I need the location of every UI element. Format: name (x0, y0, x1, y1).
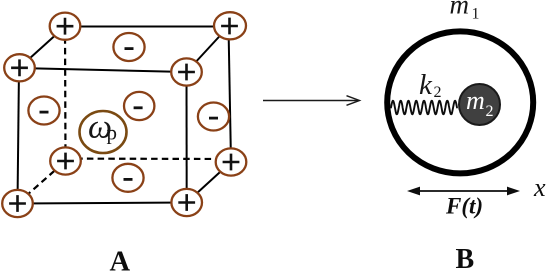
inner mass m2 (459, 84, 500, 125)
wire: cube right bottom diagonal (187, 162, 231, 203)
wire: cube front right vertical edge (186, 72, 188, 203)
svg-text:B: B (456, 244, 475, 275)
ion + front bottom right (171, 189, 202, 216)
wire: cube front top edge (19, 68, 187, 72)
electron - center (124, 92, 154, 120)
svg-text:p: p (107, 121, 118, 145)
wire: cube front bottom edge (18, 203, 187, 204)
plasma frequency circle omega_p (80, 109, 127, 153)
ion + back top right (214, 12, 246, 39)
svg-text:k: k (419, 69, 433, 101)
svg-text:A: A (110, 247, 131, 276)
ion + front bottom left (2, 190, 33, 217)
wire: cube hidden back left vertical edge (dashed) (64, 27, 67, 162)
svg-text:m: m (466, 86, 485, 115)
svg-text:1: 1 (472, 6, 480, 23)
electron - right face (198, 103, 229, 131)
ion + back top left (50, 13, 81, 40)
wire: cube top back edge (65, 26, 229, 28)
label m2 (466, 86, 494, 120)
wire: cube left top diagonal (19, 27, 65, 69)
ion + back bottom left (hidden corner) (50, 147, 81, 174)
svg-text:2: 2 (434, 84, 442, 101)
label k2 (419, 69, 442, 101)
electron - bottom face (112, 164, 143, 192)
wire: cube right top diagonal (187, 27, 229, 73)
wire: cube back right vertical edge (229, 27, 232, 163)
electron - left face (28, 97, 59, 125)
wire: cube front left vertical edge (18, 68, 20, 204)
wire: cube hidden back bottom edge (dashed) (66, 158, 232, 161)
svg-text:F(t): F(t) (445, 194, 483, 219)
wire: cube hidden bottom left diagonal (dashed) (18, 161, 66, 204)
force double arrow F(t) (407, 187, 520, 196)
svg-text:m: m (450, 0, 470, 20)
ion + front top right (171, 58, 202, 85)
spring k2 (391, 101, 457, 115)
outer mass circle m1 (387, 31, 533, 173)
electron - top face (113, 33, 144, 61)
ion + front top left (4, 54, 35, 81)
ion + back bottom right (216, 148, 247, 175)
svg-text:2: 2 (486, 103, 494, 120)
svg-text:x: x (533, 173, 546, 202)
arrow from A to B (263, 96, 360, 106)
label m1 (450, 0, 480, 23)
